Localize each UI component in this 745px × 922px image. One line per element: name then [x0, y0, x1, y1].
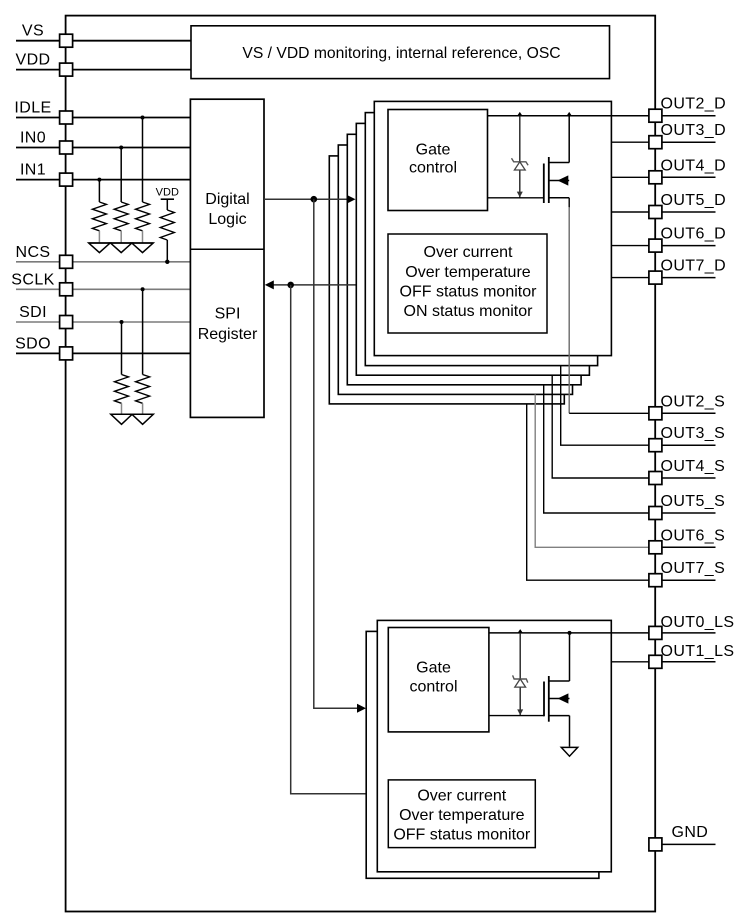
svg-text:Over current: Over current: [417, 787, 506, 804]
pin SDI: [19, 304, 73, 329]
pin IDLE: [14, 100, 72, 125]
block U_OC1: Over current monitor (top): [388, 234, 547, 333]
wire OUT1_LS lead: [611, 661, 649, 663]
pin OUT5_S: [649, 493, 725, 520]
ground G0 (low side source): [561, 747, 577, 756]
node diode-rail junction: [517, 112, 522, 116]
svg-text:OFF status monitor: OFF status monitor: [400, 283, 538, 300]
svg-text:SPI: SPI: [215, 306, 241, 323]
pin OUT6_S: [649, 527, 725, 554]
wire OUT4_D lead: [611, 176, 649, 178]
svg-text:VDD: VDD: [16, 52, 51, 69]
wire SDO lead: [16, 352, 190, 354]
pin VS: [22, 23, 73, 48]
pin OUT4_S: [649, 458, 725, 485]
svg-text:OUT5_D: OUT5_D: [661, 192, 727, 209]
wire drain rail top channel: [488, 115, 649, 117]
pin SCLK: [11, 271, 72, 296]
svg-text:OUT6_S: OUT6_S: [661, 527, 726, 544]
svg-text:VDD: VDD: [156, 187, 179, 199]
svg-text:OUT0_LS: OUT0_LS: [661, 614, 735, 631]
wire IN0 lead: [16, 147, 190, 149]
svg-text:Register: Register: [198, 326, 258, 343]
pin OUT5_D: [649, 192, 726, 219]
channel box CH0 (front, low side): [377, 620, 611, 871]
channel box CH6: [338, 145, 572, 394]
resistor R4 VDD pullup NCS: [156, 187, 179, 264]
svg-text:Gate: Gate: [416, 660, 451, 677]
svg-text:GND: GND: [672, 824, 709, 841]
pin OUT7_D: [649, 258, 726, 285]
svg-text:OUT2_D: OUT2_D: [661, 96, 727, 113]
svg-text:Gate: Gate: [416, 142, 451, 159]
wire OUT6_S routing: [535, 394, 649, 547]
svg-text:Over temperature: Over temperature: [405, 264, 530, 281]
pin OUT0_LS: [649, 614, 735, 640]
resistor R6 pulldown SDI: [115, 320, 129, 414]
ground G2 double: [111, 414, 154, 424]
channel box CH7: [329, 156, 564, 404]
wire OUT7_D lead: [611, 277, 649, 279]
pin VDD: [16, 52, 73, 77]
wire OUT2_S routing: [568, 198, 570, 208]
svg-text:VS: VS: [22, 23, 44, 40]
svg-text:OUT3_D: OUT3_D: [661, 122, 727, 139]
node diode-rail junction LS: [518, 629, 523, 633]
chip border: [66, 16, 656, 912]
wire OUT3_S routing: [561, 366, 649, 446]
svg-text:control: control: [409, 160, 457, 177]
channel box CH3: [365, 113, 597, 366]
channel box CH1 (back, low side): [366, 631, 599, 878]
pin OUT1_LS: [649, 643, 735, 668]
pin OUT3_S: [649, 425, 725, 452]
block U_GC1: Gate control (top): [388, 110, 488, 211]
svg-text:OUT5_S: OUT5_S: [661, 493, 726, 510]
svg-text:Over current: Over current: [424, 244, 513, 261]
transistor Q0 (low side MOSFET): [489, 633, 570, 747]
resistor R1 pulldown IDLE: [136, 116, 150, 244]
svg-text:IN1: IN1: [20, 162, 46, 179]
wire OUT6_D lead: [611, 245, 649, 247]
pin OUT7_S: [649, 560, 725, 587]
wire OUT7_S routing: [527, 404, 649, 580]
svg-text:OUT4_S: OUT4_S: [661, 458, 726, 475]
wire OUT5_D lead: [611, 211, 649, 213]
diode D1 (zener, top channel): [512, 116, 529, 198]
channel box CH4: [356, 123, 589, 375]
wire NCS lead: [16, 261, 190, 263]
svg-text:Logic: Logic: [208, 211, 246, 228]
arrowhead LS gate: [357, 704, 366, 713]
resistor R2 pulldown IN0: [114, 146, 128, 244]
svg-text:OFF status monitor: OFF status monitor: [393, 826, 531, 843]
channel box CH2 (front): [374, 101, 611, 355]
wire status return to SPI: [265, 280, 356, 289]
ground G1 triple: [89, 243, 154, 253]
node mosfet-drain-rail junction LS: [568, 631, 572, 635]
pin SDO: [15, 335, 73, 360]
svg-text:Over temperature: Over temperature: [399, 807, 524, 824]
svg-text:SCLK: SCLK: [11, 271, 54, 288]
svg-text:OUT4_D: OUT4_D: [661, 157, 727, 174]
svg-text:OUT1_LS: OUT1_LS: [661, 643, 735, 660]
transistor Q1 (top channel MOSFET): [488, 116, 570, 203]
block U_MON: VS/VDD monitoring box: [191, 26, 610, 79]
svg-text:OUT3_S: OUT3_S: [661, 425, 726, 442]
svg-text:OUT6_D: OUT6_D: [661, 226, 727, 243]
svg-text:SDO: SDO: [15, 335, 51, 352]
pin OUT2_D: [649, 96, 726, 123]
pin GND: [649, 824, 716, 851]
pin OUT2_S: [649, 393, 725, 420]
channel box CH5: [347, 134, 581, 384]
wire IN1 lead: [16, 179, 190, 181]
wire VDD lead: [16, 69, 191, 71]
pin OUT3_D: [649, 122, 726, 149]
resistor R5 pulldown SCLK: [136, 287, 150, 414]
wire OUT4_S routing: [552, 375, 649, 478]
svg-text:OUT7_D: OUT7_D: [661, 258, 727, 275]
wire SDI lead: [16, 321, 190, 323]
block U_DL: Digital Logic / SPI Register: [190, 99, 264, 417]
wire VS lead: [16, 40, 191, 42]
wire gate drive vertical to LS block: [314, 199, 358, 708]
pin OUT4_D: [649, 157, 726, 184]
pin IN0: [20, 130, 73, 155]
wire OUT3_D lead: [611, 141, 649, 143]
svg-text:Digital: Digital: [205, 191, 249, 208]
block U_OC0: Over current monitor (low side): [388, 780, 535, 848]
svg-text:SDI: SDI: [19, 304, 47, 321]
svg-text:IDLE: IDLE: [14, 100, 51, 117]
svg-text:ON status monitor: ON status monitor: [404, 303, 534, 320]
wire status vertical from LS block: [291, 285, 367, 794]
svg-text:NCS: NCS: [16, 244, 51, 261]
wire SCLK lead: [16, 288, 190, 290]
wire gate drive from Digital Logic: [264, 195, 356, 204]
wire OUT5_S routing: [544, 385, 649, 513]
node mosfet-drain-rail junction: [567, 112, 572, 116]
svg-text:IN0: IN0: [20, 130, 46, 147]
resistor R3 pulldown IN1: [92, 178, 106, 243]
wire drain rail low side: [489, 632, 649, 634]
pin NCS: [16, 244, 73, 269]
pin OUT6_D: [649, 226, 726, 253]
block U_GC0: Gate control (low side): [388, 628, 489, 732]
svg-text:OUT2_S: OUT2_S: [661, 393, 726, 410]
svg-text:VS / VDD monitoring, internal: VS / VDD monitoring, internal reference,…: [242, 45, 560, 62]
pin IN1: [20, 162, 73, 187]
svg-text:control: control: [409, 678, 457, 695]
svg-text:OUT7_S: OUT7_S: [661, 560, 726, 577]
diode D0 (zener, low side): [513, 633, 528, 716]
wire IDLE lead: [16, 117, 190, 119]
